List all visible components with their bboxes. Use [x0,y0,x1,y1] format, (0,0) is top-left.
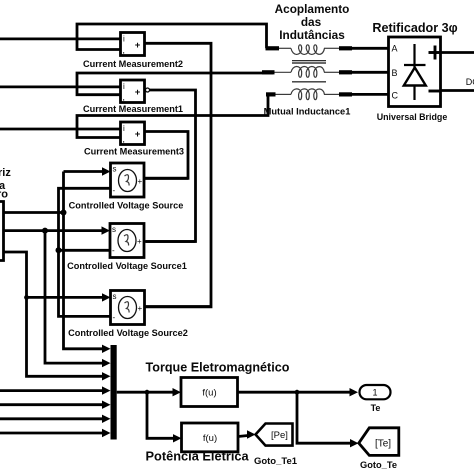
svg-text:s: s [112,225,116,234]
label matriz (cut at left edge) [0,167,11,201]
svg-text:Acoplamento: Acoplamento [275,2,350,16]
goto tag [Pe] [256,424,293,446]
controlled voltage source block Controlled Voltage Source [111,163,145,197]
wire: Current Measurement1 right port to vertical bus x=195.5 [146,90,196,242]
svg-text:+: + [135,87,141,98]
wire: signal into Controlled Voltage Source [64,170,105,173]
wire: Current Measurement3 right port loop to Controlled Voltage Source [145,132,189,179]
wire: machine signal 5 into mux [0,403,104,406]
arrowhead Goto_Te input [350,439,359,447]
wire: bridge - output to right edge [441,89,474,92]
wire: matriz output 2 to CVS2 signal [4,229,105,232]
svg-text:DC: DC [466,77,474,87]
svg-text:-: - [113,313,116,322]
svg-text:Controlled Voltage Source2: Controlled Voltage Source2 [68,328,188,338]
mutual inductance winding 3 leads [266,92,389,96]
wire: matriz output 3 down [4,252,105,376]
svg-text:A: A [392,44,398,54]
controlled voltage source block Controlled Voltage Source1 [110,224,144,258]
svg-text:Potência Elétrica: Potência Elétrica [146,449,250,464]
svg-text:+: + [138,177,143,186]
svg-text:Controlled Voltage Source: Controlled Voltage Source [69,201,184,211]
arrowhead Goto_Te1 input [247,430,256,438]
wire: machine signal 7 into mux [0,432,104,435]
svg-text:Current Measurement2: Current Measurement2 [83,59,183,69]
svg-text:+: + [137,237,142,246]
node junction dot on net1 [61,210,67,216]
wire: CVS3 output to CM2 loop [145,305,212,308]
goto tag [Te] [359,428,399,456]
svg-text:-: - [112,246,115,255]
arrowhead CVS1 signal [102,167,111,175]
mux block [111,345,117,440]
svg-text:+: + [138,304,143,313]
wire: CVS minus bus [59,188,111,316]
mutual inductance winding 3 coil [291,89,324,100]
svg-text:f(u): f(u) [202,388,216,399]
outport Te oval [360,385,391,399]
svg-text:Current Measurement3: Current Measurement3 [84,147,184,157]
current measurement block Current Measurement3 [121,122,145,145]
wire: CVS1 output to CM3 loop [144,177,188,180]
svg-text:Te: Te [371,403,381,413]
wire: net1 vertical (CVS signal / mux row1) [64,172,105,349]
node junction dot at Te branch [295,390,300,395]
svg-text:riz: riz [0,167,11,179]
wire: mux output to Fcn blocks [117,391,175,394]
svg-text:Mutual Inductance1: Mutual Inductance1 [264,107,351,117]
wire: left input to Current Measurement2 [0,38,121,41]
plus terminal mark of bridge [429,46,442,60]
svg-text:s: s [113,292,117,301]
node junction dot on net2 [42,228,48,234]
node junction dot on minus bus [56,247,62,253]
arrowhead Fcn1 input [173,388,182,396]
svg-text:Goto_Te: Goto_Te [360,460,397,470]
wire: net2 vertical to mux row2 [45,231,104,364]
svg-text:B: B [392,68,398,78]
svg-text:ro: ro [0,189,8,201]
wire: Current Measurement2 right port to vertical bus x=211 [145,43,212,307]
svg-text:[Pe]: [Pe] [271,430,288,441]
svg-text:[Te]: [Te] [375,439,391,450]
svg-text:s: s [113,165,117,174]
svg-text:.: . [123,94,125,103]
wire: machine signal 6 into mux [0,417,104,420]
wire: minus bus branch to CVS2 [59,249,111,252]
wire: left input to Current Measurement3 [0,128,121,131]
wire: CVS2 output to CM1 loop [144,240,196,243]
wire: bridge + output to right edge [441,51,474,54]
svg-text:das: das [301,15,322,29]
universal bridge block [389,37,441,107]
wire: left input to Current Measurement1 [0,86,121,89]
mutual inductance core bar 1 [292,61,326,63]
Fcn block f(u) torque [181,378,238,407]
arrowhead mux row5 [102,401,111,409]
arrowhead mux row1 [102,345,111,353]
svg-text:i: i [123,82,125,91]
svg-text:C: C [392,91,399,101]
title Acoplamento das Indutancias [275,2,350,42]
arrowhead CVS2 signal [102,226,111,234]
svg-text:f(u): f(u) [203,433,217,444]
arrowhead Fcn2 input [173,434,182,442]
svg-text:Goto_Te1: Goto_Te1 [254,456,298,467]
svg-text:i: i [123,124,125,133]
wire: matriz output 1 to node [4,211,64,214]
port circle on Current Measurement1 output [146,88,150,92]
arrowhead mux row7 [102,429,111,437]
wire: Fcn2 output to Goto_Te1 [238,436,248,437]
node junction dot at Fcn branch [145,390,150,395]
current measurement block Current Measurement1 [121,80,145,103]
svg-text:+: + [135,40,141,51]
svg-text:.: . [123,47,125,56]
svg-text:Current Measurement1: Current Measurement1 [83,104,183,114]
mutual inductance winding 1 coil [291,45,324,55]
arrowhead mux row3 [102,372,111,380]
node junction dot on net3 [24,295,29,300]
wire: Fcn1 output to Te outport [238,391,351,394]
wire: branch down to Goto_Te [297,392,350,443]
svg-text:1: 1 [372,388,377,398]
svg-text:.: . [123,136,125,145]
wire: net3 branch to CVS3 signal [27,296,105,299]
Fcn block f(u) power [182,423,239,452]
controlled voltage source block Controlled Voltage Source2 [111,291,145,325]
wire: bracket loop of Current Measurement3 (top run to winding 3) [77,94,274,137]
mutual inductance winding 1 leads [266,46,389,50]
wire: machine signal 4 into mux [0,389,104,392]
mutual inductance winding 2 coil [291,66,324,77]
svg-text:Retificador 3φ: Retificador 3φ [372,21,457,35]
mutual inductance core bar 2 [292,81,326,83]
svg-text:-: - [113,186,116,195]
minus terminal mark of bridge [429,90,441,93]
diode inside universal bridge [404,44,426,100]
svg-text:+: + [135,129,141,140]
arrowhead CVS3 signal [102,293,111,301]
arrowhead mux row2 [102,359,111,367]
wire: bracket loop of Current Measurement2 (top run to winding 1) [77,24,267,50]
current measurement block Current Measurement2 [121,33,145,56]
svg-text:Torque Eletromagnético: Torque Eletromagnético [146,361,290,375]
svg-text:Indutâncias: Indutâncias [279,28,345,42]
mutual inductance winding 2 leads [262,70,389,74]
svg-text:Universal Bridge: Universal Bridge [377,112,448,122]
svg-text:i: i [123,35,125,44]
arrowhead mux row6 [102,415,111,423]
wire: branch down to Fcn2 [147,392,175,438]
matriz block at left edge [0,202,4,261]
arrowhead Te outport [350,388,359,396]
wire: bracket loop of Current Measurement1 (top run to winding 2) [77,73,273,95]
svg-text:Controlled Voltage Source1: Controlled Voltage Source1 [67,261,187,271]
arrowhead mux row4 [102,386,111,394]
